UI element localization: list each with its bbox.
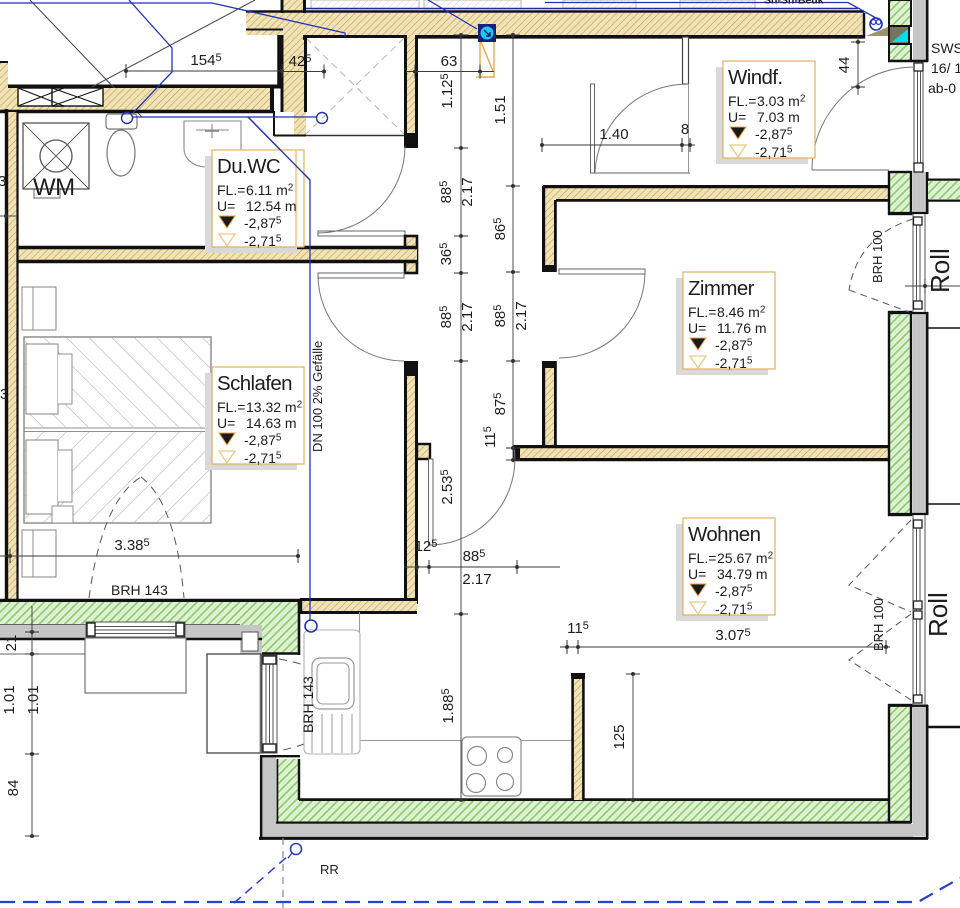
west exterior wall: [8, 112, 17, 601]
svg-text:U=: U=: [688, 566, 706, 582]
roof slope diagonal lines: [30, 0, 142, 117]
south exterior wall: green insulation band: [0, 601, 240, 624]
top wall band of apartment: [246, 10, 864, 13]
shaft valve symbol: [478, 24, 496, 42]
svg-text:SWS-: SWS-: [931, 40, 960, 56]
nightstand upper: [22, 287, 56, 330]
hall wall upper piece with black cap: [404, 35, 418, 133]
dimension 63: [406, 71, 494, 73]
terrace pad A: [85, 638, 186, 693]
Du.WC door swing arc: [318, 146, 405, 233]
svg-text:25.67 m2: 25.67 m2: [717, 550, 774, 566]
kitchen window dashed arch: [279, 659, 352, 751]
top wall band of WM room: [0, 88, 274, 111]
upper apartment room top-left: [0, 28, 283, 88]
kitchen counter edge lines: [359, 612, 361, 740]
shaft orange duct element: [476, 41, 494, 77]
east wall green blocks: [889, 0, 911, 26]
svg-text:125: 125: [611, 724, 628, 749]
svg-text:3.03 m2: 3.03 m2: [757, 93, 806, 109]
svg-text:6.11 m2: 6.11 m2: [246, 182, 294, 198]
svg-text:1.01: 1.01: [25, 685, 42, 714]
Schlafen window: [86, 622, 185, 637]
dimension 42.5: [282, 71, 324, 73]
dimension 44 entrance: [857, 36, 859, 95]
svg-text:34.79 m: 34.79 m: [717, 566, 768, 582]
svg-text:11.76 m: 11.76 m: [717, 320, 767, 336]
Zimmer top wall: [543, 188, 888, 199]
corner fold: [52, 506, 73, 523]
pillow lower: [26, 440, 58, 514]
dimension 12.5 / 88.5 kitchen doorway: [404, 566, 560, 568]
entrance door arc: [812, 67, 915, 170]
svg-text:FL.=: FL.=: [688, 304, 716, 320]
neighbour balcony band right: [928, 181, 960, 199]
Schlafen door swing arc: [318, 275, 404, 361]
svg-text:BRH 100: BRH 100: [870, 230, 885, 283]
Zimmer west wall stub: [545, 361, 554, 448]
svg-text:FL.=: FL.=: [217, 182, 245, 198]
Wohnen window: [912, 515, 914, 705]
hall wall lower piece: [404, 361, 418, 604]
vertical wall band beside shaft: [283, 0, 306, 112]
wall between Du.WC and Schlafen: [5, 248, 417, 261]
svg-text:Schlafen: Schlafen: [217, 372, 292, 395]
bed frame: [24, 337, 211, 523]
window tilt dashed arch: [89, 477, 184, 598]
svg-text:13.32 m2: 13.32 m2: [246, 399, 303, 415]
wash basin: [184, 121, 241, 167]
svg-text:2.17: 2.17: [462, 571, 491, 588]
entrance side light: [913, 62, 915, 172]
svg-text:Wohnen: Wohnen: [688, 523, 761, 546]
dimension 154.5: [126, 70, 282, 72]
kitchen counter section outline: [304, 630, 360, 754]
mattress top hatched: [25, 338, 210, 427]
bottom boundary blue dashed: [0, 878, 960, 902]
kitchen north wall: [300, 599, 417, 612]
washing machine WM: [23, 123, 89, 198]
dimension 11.5 / 3.07.5 Wohnen: [560, 646, 890, 648]
neighbour flat hatch strip top: [311, 0, 755, 9]
east wall grey outer band: [913, 0, 926, 61]
Windf glass partition: [683, 37, 689, 84]
Zimmer door leaf: [559, 269, 645, 274]
svg-text:2.17: 2.17: [459, 177, 476, 206]
Wohnen wall stub: [573, 674, 584, 800]
svg-text:1.01: 1.01: [1, 685, 18, 714]
svg-text:Zimmer: Zimmer: [688, 277, 755, 300]
kitchen door jamb stub: [417, 444, 430, 459]
svg-text:RR: RR: [320, 862, 339, 877]
terrace pad B: [207, 654, 261, 753]
svg-text:BRH 143: BRH 143: [300, 676, 316, 733]
room label Wohnen: [676, 518, 775, 621]
dimension 125 stub: [632, 674, 634, 800]
svg-text:FL.=: FL.=: [728, 93, 756, 109]
Zimmer door swing arc: [559, 273, 645, 358]
svg-text:84: 84: [5, 780, 22, 797]
neighbour boundary blue line: [293, 8, 858, 10]
svg-text:7.03 m: 7.03 m: [757, 109, 800, 125]
Windf floor line: [592, 172, 690, 174]
svg-text:16/ 1: 16/ 1: [931, 60, 960, 76]
svg-text:8.46 m2: 8.46 m2: [717, 304, 766, 320]
svg-text:1.40: 1.40: [599, 126, 628, 143]
dimension 1.40 / 8 Windf: [542, 144, 695, 146]
room label Zimmer: [676, 272, 775, 375]
west kitchen wall below corner: [263, 755, 276, 838]
svg-text:ab-0: ab-0: [928, 80, 956, 96]
shaft with dashed X: [306, 38, 404, 135]
Zimmer window: [912, 214, 914, 312]
south exterior wall: grey outer layer: [0, 625, 262, 638]
svg-text:Sn-Sn-Beuk: Sn-Sn-Beuk: [764, 0, 824, 7]
dimension chain hallway 2: [512, 35, 514, 460]
blue pipe over stamp: [248, 117, 310, 180]
svg-text:Roll: Roll: [923, 592, 953, 637]
wall end cap: [270, 85, 274, 112]
mattress bottom hatched: [25, 431, 210, 522]
kitchen sink: [312, 658, 354, 709]
svg-text:1.51: 1.51: [492, 95, 509, 124]
room label Du.WC: [205, 150, 304, 253]
svg-text:63: 63: [441, 53, 458, 70]
svg-text:BRH 143: BRH 143: [111, 582, 168, 598]
step notch at shaft corner: [274, 112, 294, 136]
nightstand lower: [22, 530, 56, 577]
pillow upper: [26, 344, 58, 414]
svg-text:U=: U=: [217, 198, 235, 214]
left edge wall fragment: [0, 62, 8, 88]
Du.WC door leaf: [318, 231, 405, 236]
svg-text:3: 3: [0, 386, 8, 403]
svg-text:2.17: 2.17: [459, 302, 476, 331]
svg-text:WM: WM: [33, 174, 75, 201]
svg-text:BRH 100: BRH 100: [871, 598, 886, 651]
entrance element symbols: [889, 26, 909, 44]
Zimmer west wall upper: [545, 199, 554, 272]
bottom exterior wall: [299, 798, 890, 801]
left wall tick: [0, 215, 16, 217]
svg-text:21: 21: [3, 635, 20, 652]
svg-text:U=: U=: [688, 320, 706, 336]
dimension chain hallway 1: [460, 35, 462, 800]
svg-text:12.54 m: 12.54 m: [246, 198, 297, 214]
svg-text:DN 100 2% Gefälle: DN 100 2% Gefälle: [310, 341, 325, 452]
kitchen door leaf: [429, 459, 434, 545]
room label Windf.: [716, 61, 815, 164]
dimension 3.38.5 Schlafen: [0, 555, 298, 557]
svg-text:Windf.: Windf.: [728, 66, 783, 89]
svg-text:3: 3: [0, 173, 6, 190]
room label Schlafen: [205, 367, 304, 470]
svg-text:Du.WC: Du.WC: [217, 155, 281, 178]
svg-text:44: 44: [836, 57, 853, 74]
svg-text:FL.=: FL.=: [217, 399, 245, 415]
svg-text:8: 8: [681, 121, 689, 138]
svg-text:2.17: 2.17: [513, 301, 530, 330]
Schlafen door leaf: [318, 273, 404, 278]
toilet: [106, 114, 137, 176]
Windf inner door arc: [595, 84, 689, 172]
svg-text:14.63 m: 14.63 m: [246, 415, 297, 431]
jamb stub between doors: [405, 236, 417, 273]
draining board: [312, 714, 352, 753]
stove: [462, 737, 521, 796]
kitchen door swing arc: [433, 447, 515, 545]
drain symbol blue circle: [870, 18, 882, 30]
svg-text:U=: U=: [728, 109, 746, 125]
lintel boxes with X: [18, 88, 103, 106]
kitchen window: [262, 655, 277, 753]
svg-text:U=: U=: [217, 415, 235, 431]
Zimmer / Wohnen wall: [513, 448, 888, 459]
svg-text:Roll: Roll: [925, 248, 955, 293]
left outside dimension chain: [31, 606, 33, 838]
blue pipe runs: [0, 0, 876, 620]
svg-text:FL.=: FL.=: [688, 550, 716, 566]
